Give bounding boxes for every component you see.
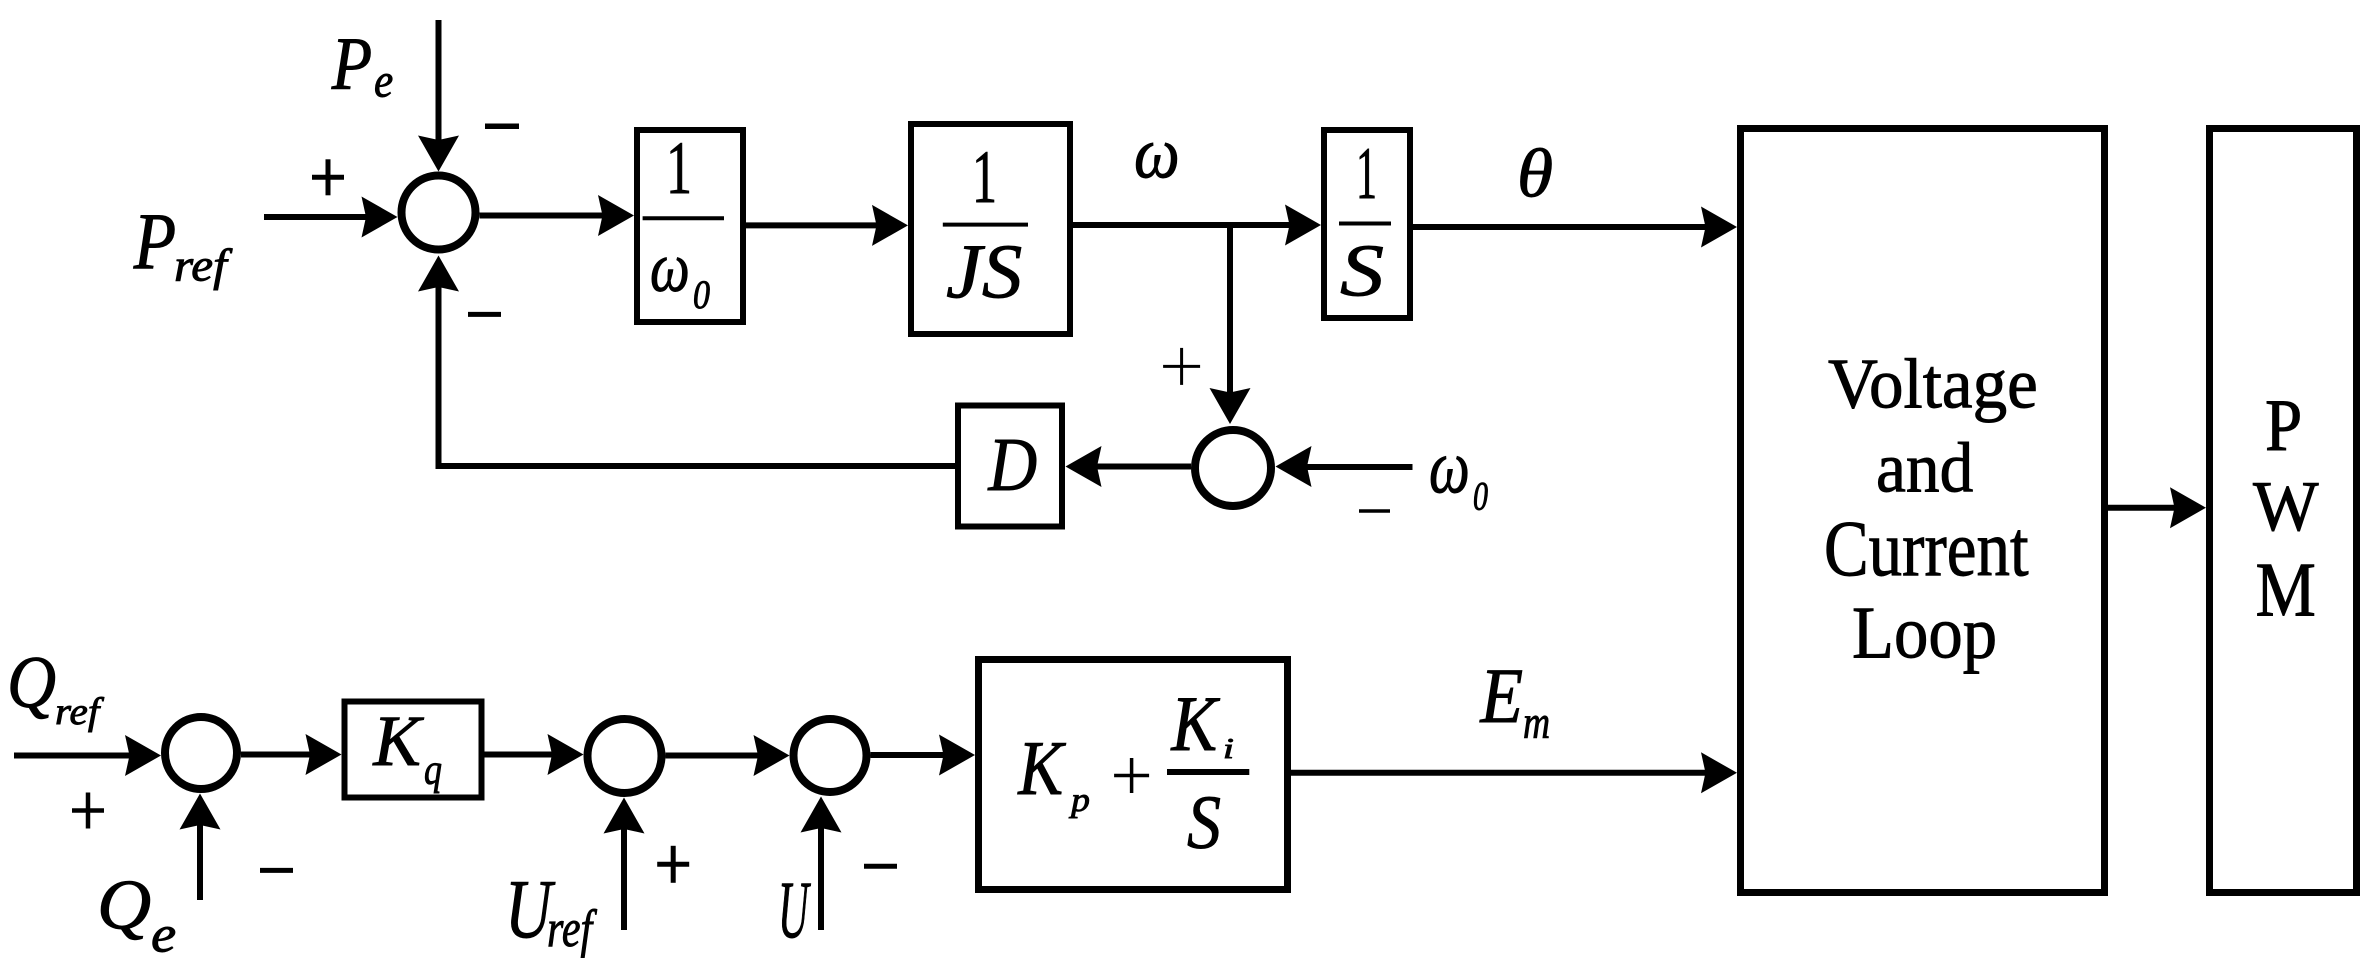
arrowhead U into S5 (801, 797, 842, 833)
arrowhead into block 1/JS (872, 205, 908, 246)
block Voltage and Current Loop (1741, 129, 2105, 893)
block 1/JS (911, 124, 1070, 334)
fraction bar of block 1/S (1339, 222, 1391, 226)
minus sign at w0 input (1359, 509, 1390, 513)
arrowhead into block 1/S (1285, 205, 1321, 246)
svg-text:U: U (778, 864, 811, 955)
svg-text:0: 0 (693, 273, 710, 317)
plus sign at Qref input (72, 793, 104, 829)
plus sign in PI block (1114, 758, 1149, 793)
wire Uref input (vertical into summer S4) (621, 826, 627, 931)
wire Em from PI block to Voltage and Current Loop (1291, 770, 1709, 776)
wire U input (vertical into summer S5) (818, 825, 824, 931)
svg-text:m: m (1523, 697, 1550, 749)
block D (958, 406, 1062, 527)
wire Qe input (vertical into summer S3) (197, 822, 203, 901)
svg-text:K: K (1017, 725, 1066, 811)
plus sign at Pref input (312, 159, 344, 195)
summer S4 (+ Uref) (588, 719, 662, 793)
arrowhead Qe into S3 (180, 794, 221, 830)
svg-text:i: i (1223, 733, 1234, 765)
svg-text:Q: Q (97, 867, 151, 945)
block 1/w0 (637, 130, 743, 322)
svg-text:ω: ω (1429, 426, 1470, 510)
wire summer S4 to summer S5 (666, 753, 762, 759)
svg-text:JS: JS (946, 228, 1022, 314)
summer S1 (Pref + Pe feedback) (402, 176, 476, 250)
wire w0 input to summer S2 (1304, 464, 1413, 470)
svg-text:0: 0 (1473, 474, 1488, 519)
svg-text:Voltage: Voltage (1828, 344, 2038, 423)
arrowhead into summer S4 (548, 734, 584, 775)
arrowhead into summer S5 (754, 735, 790, 776)
svg-text:p: p (1069, 782, 1090, 819)
block PI Kp+Ki/S (979, 660, 1288, 890)
svg-text:1: 1 (972, 136, 997, 219)
svg-text:K: K (372, 702, 424, 781)
wire Pref input (264, 214, 370, 220)
arrowhead Em into Voltage and Current Loop (1701, 752, 1737, 793)
arrowhead into block D (1066, 446, 1102, 487)
svg-text:θ: θ (1517, 135, 1553, 211)
svg-text:E: E (1480, 652, 1524, 739)
block Kq (345, 702, 482, 798)
wire omega branch down to summer S2 (1227, 225, 1233, 396)
minus sign at U input (864, 864, 897, 869)
svg-text:P: P (331, 23, 372, 106)
svg-text:Q: Q (7, 642, 56, 724)
wire feedback from block D to summer S1 (439, 284, 956, 467)
svg-text:D: D (988, 423, 1038, 507)
arrowhead into PI block (939, 735, 975, 776)
wire summer S3 to block Kq (241, 752, 315, 758)
summer S5 (- U) (794, 719, 867, 792)
wire summer S5 to PI block (871, 752, 948, 758)
svg-text:ω: ω (1134, 112, 1180, 193)
minus sign at Qe input (260, 868, 293, 873)
arrowhead into block Kq (306, 734, 342, 775)
wire Pe input (vertical into summer S1) (436, 20, 442, 144)
arrowhead theta into Voltage and Current Loop (1701, 207, 1737, 248)
wire block 1/JS to block 1/S (omega node) (1073, 222, 1293, 228)
block PWM (2210, 129, 2357, 893)
svg-text:Current: Current (1824, 506, 2029, 593)
svg-text:and: and (1876, 428, 1973, 507)
arrowhead w0 into S2 (1276, 446, 1312, 487)
svg-text:1: 1 (1356, 132, 1377, 214)
wire Qref input (14, 753, 133, 759)
svg-text:ω: ω (650, 229, 690, 307)
arrowhead Qref into summer S3 (125, 735, 161, 776)
plus sign at omega branch into S2 (1163, 348, 1200, 385)
svg-text:e: e (151, 907, 176, 964)
svg-text:e: e (374, 55, 393, 108)
wire theta from block 1/S to Voltage and Current Loop (1413, 224, 1709, 230)
arrowhead Pe into S1 (418, 136, 459, 172)
svg-text:W: W (2253, 468, 2319, 546)
arrowhead Pref into S1 (362, 197, 398, 238)
svg-text:ref: ref (547, 900, 597, 958)
arrowhead omega branch into S2 (1210, 388, 1251, 424)
svg-text:K: K (1171, 680, 1221, 767)
svg-text:ref: ref (174, 241, 233, 291)
wire block 1/w0 to block 1/JS (746, 222, 880, 228)
summer S3 (Qref - Qe) (165, 717, 237, 789)
fraction bar of block 1/JS (943, 223, 1028, 227)
fraction bar in PI block (1167, 769, 1249, 775)
wire Voltage and Current Loop to PWM (2108, 505, 2178, 511)
wire S1 to block 1/w0 (480, 213, 607, 219)
arrowhead into PWM (2170, 487, 2206, 528)
svg-text:1: 1 (666, 127, 692, 210)
svg-text:S: S (1340, 230, 1384, 312)
svg-text:P: P (133, 198, 176, 286)
arrowhead into block 1/w0 (598, 195, 634, 236)
summer S2 (omega - w0) (1195, 430, 1271, 506)
plus sign at Uref input (657, 846, 689, 883)
block 1/S (1324, 130, 1410, 318)
wire summer S2 to block D (1094, 464, 1192, 470)
svg-text:S: S (1187, 781, 1221, 865)
svg-text:Loop: Loop (1852, 592, 1997, 674)
svg-text:M: M (2256, 547, 2316, 633)
svg-text:ref: ref (55, 691, 105, 733)
svg-text:q: q (424, 745, 442, 793)
arrowhead Uref into S4 (604, 798, 645, 834)
arrowhead feedback into S1 (418, 256, 459, 292)
minus sign at Pe input (485, 124, 519, 130)
wire block Kq to summer S4 (485, 752, 556, 758)
svg-text:P: P (2265, 385, 2302, 467)
fraction bar of block 1/w0 (643, 216, 724, 220)
minus sign at feedback into S1 (468, 312, 501, 317)
